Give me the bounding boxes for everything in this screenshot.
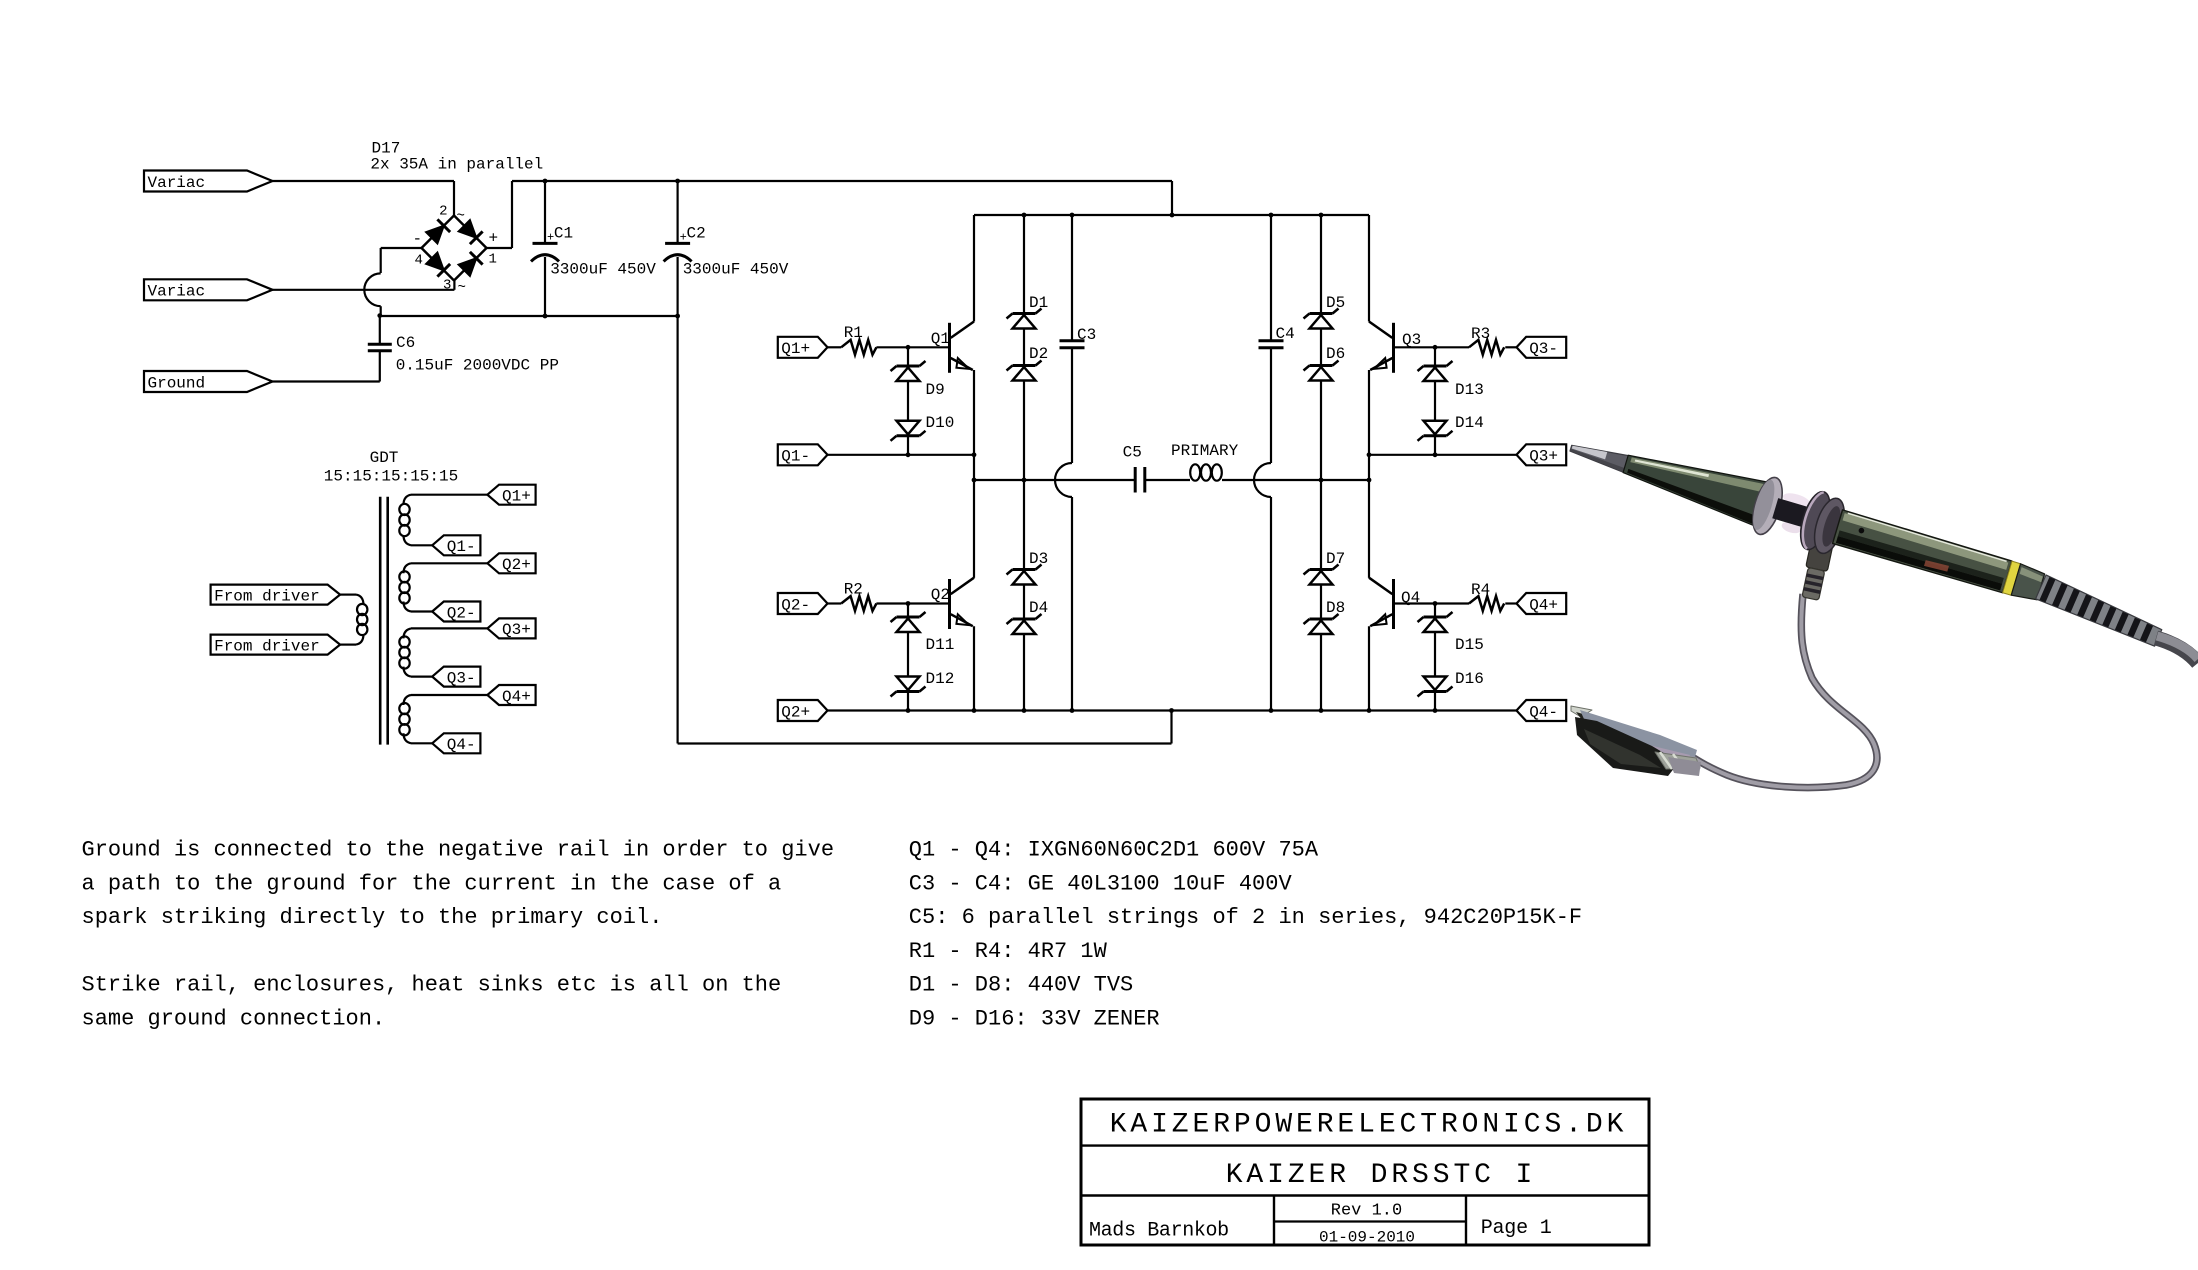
node mid rail junctions [972, 478, 977, 483]
svg-text:D10: D10 [926, 414, 955, 432]
wire positive rail from bridge to H-bridge feed [487, 247, 513, 249]
svg-text:R1 - R4: 4R7 1W: R1 - R4: 4R7 1W [909, 939, 1108, 964]
svg-text:PRIMARY: PRIMARY [1171, 442, 1239, 460]
svg-text:C1: C1 [554, 225, 573, 243]
svg-text:spark striking directly to the: spark striking directly to the primary c… [82, 905, 663, 930]
svg-text:D1 - D8: 440V TVS: D1 - D8: 440V TVS [909, 973, 1133, 998]
capacitor C1 [531, 181, 559, 316]
wire Q2 emitter down [973, 626, 975, 710]
wire Q1- row [828, 454, 975, 456]
svg-text:Q1+: Q1+ [781, 340, 810, 358]
flag Q1+ [487, 485, 535, 506]
transformer GDT core [379, 497, 382, 745]
title block frame [1081, 1099, 1649, 1245]
svg-text:D3: D3 [1029, 550, 1048, 568]
node bottom rail junctions [906, 708, 911, 713]
svg-text:From driver: From driver [214, 637, 320, 655]
diode D3 (TVS) [1007, 480, 1042, 619]
svg-text:Variac: Variac [148, 283, 206, 301]
wire top rail from Variac to bridge [273, 180, 455, 182]
svg-text:3: 3 [443, 278, 451, 294]
probe tip [1568, 439, 1631, 473]
svg-text:C4: C4 [1276, 325, 1295, 343]
svg-text:Variac: Variac [148, 174, 206, 192]
capacitor C4 [1254, 215, 1284, 711]
wire feed down to H-bridge top rail [1171, 181, 1173, 215]
transistor Q4 [1369, 578, 1394, 629]
flag Ground [144, 371, 273, 392]
capacitor C6 [368, 316, 392, 382]
svg-text:Q2-: Q2- [447, 604, 476, 622]
flag Q3- [1517, 337, 1567, 358]
node C1 bottom [543, 314, 548, 319]
diode D16 (zener) [1418, 677, 1453, 711]
svg-text:Ground is connected to the neg: Ground is connected to the negative rail… [82, 838, 835, 863]
flag From driver [211, 635, 341, 656]
svg-text:R1: R1 [844, 324, 863, 342]
node C2 top [675, 179, 680, 184]
svg-text:C5: C5 [1123, 444, 1142, 462]
wire Q1 collector [973, 215, 975, 322]
svg-text:3300uF 450V: 3300uF 450V [550, 261, 656, 279]
diode D7 (TVS) [1304, 480, 1339, 619]
svg-text:Q2+: Q2+ [781, 703, 810, 721]
diode D4 (TVS) [1007, 614, 1042, 711]
bridge rectifier D17 [413, 204, 499, 297]
flag Q2- [778, 593, 828, 614]
svg-text:Q4: Q4 [1401, 589, 1420, 607]
wire mid rail (bridge output) [974, 479, 1135, 481]
svg-text:Q2+: Q2+ [502, 556, 531, 574]
wire Q3+ row [1369, 454, 1517, 456]
GDT secondary winding Q1+/Q1- [399, 495, 487, 546]
GDT secondary winding Q3+/Q3- [399, 628, 487, 676]
diode D6 (TVS) [1304, 361, 1339, 481]
wire gate to Q2 [908, 602, 949, 604]
svg-text:C6: C6 [396, 334, 415, 352]
svg-text:D9: D9 [926, 381, 945, 399]
svg-text:Q1+: Q1+ [502, 488, 531, 506]
svg-text:D14: D14 [1455, 414, 1484, 432]
svg-text:same ground connection.: same ground connection. [82, 1007, 386, 1032]
svg-text:R4: R4 [1471, 581, 1490, 599]
flag Variac [144, 171, 273, 192]
probe ground lead connector [1800, 526, 1836, 601]
svg-text:+: + [489, 230, 499, 248]
node C2 bottom [675, 314, 680, 319]
GDT secondary winding Q2+/Q2- [399, 563, 487, 611]
svg-text:Q3-: Q3- [1529, 340, 1558, 358]
svg-text:3300uF 450V: 3300uF 450V [683, 261, 789, 279]
svg-text:15:15:15:15:15: 15:15:15:15:15 [324, 468, 458, 486]
svg-text:Q3+: Q3+ [502, 621, 531, 639]
probe flange disc [1747, 474, 1788, 538]
svg-text:Q1 - Q4: IXGN60N60C2D1 600V 75: Q1 - Q4: IXGN60N60C2D1 600V 75A [909, 838, 1319, 863]
node Q3+ junctions [1433, 452, 1438, 457]
svg-text:D12: D12 [926, 670, 955, 688]
flag Q1+ [778, 337, 828, 358]
probe rear taper [2011, 564, 2045, 603]
svg-text:Q1-: Q1- [781, 448, 810, 466]
wire bridge pin4 to negative rail (with hop) [381, 247, 422, 249]
diode D10 (zener) [891, 421, 926, 455]
inductor PRIMARY [1190, 464, 1222, 480]
svg-text:Rev 1.0: Rev 1.0 [1331, 1202, 1402, 1221]
wire Q1 emitter down [973, 370, 975, 578]
flag Q2- [432, 602, 480, 623]
diode D1 (TVS) [1007, 215, 1042, 366]
svg-text:D8: D8 [1326, 599, 1345, 617]
flag Q4- [1517, 700, 1567, 721]
svg-text:Q4+: Q4+ [502, 688, 531, 706]
svg-text:01-09-2010: 01-09-2010 [1319, 1229, 1415, 1247]
svg-text:1: 1 [489, 252, 497, 268]
diode D5 (TVS) [1304, 215, 1339, 366]
probe neck [1781, 491, 1811, 509]
wire negative return rail [676, 316, 678, 744]
flag Q4+ [1517, 593, 1567, 614]
wire gate to Q3 [1395, 346, 1435, 348]
svg-text:KAIZER DRSSTC I: KAIZER DRSSTC I [1226, 1160, 1537, 1191]
svg-text:D5: D5 [1326, 294, 1345, 312]
svg-text:C5: 6 parallel strings of 2 in: C5: 6 parallel strings of 2 in series, 9… [909, 905, 1582, 930]
svg-text:C2: C2 [687, 225, 706, 243]
probe alligator clip [1571, 706, 1701, 776]
diode D2 (TVS) [1007, 361, 1042, 481]
resistor R4 [1435, 596, 1517, 611]
svg-text:Q4-: Q4- [447, 736, 476, 754]
diode D15 (zener) [1418, 604, 1453, 677]
svg-text:2: 2 [439, 204, 447, 220]
svg-text:D1: D1 [1029, 294, 1048, 312]
svg-text:Q3+: Q3+ [1529, 448, 1558, 466]
transistor Q2 [950, 578, 975, 629]
svg-text:Q3-: Q3- [447, 669, 476, 687]
resistor R3 [1435, 340, 1517, 355]
svg-text:D16: D16 [1455, 670, 1484, 688]
diode D12 (zener) [891, 677, 926, 711]
capacitor C2 [664, 181, 692, 316]
diode D9 (zener) [891, 347, 926, 421]
probe head cone [1619, 441, 1774, 528]
svg-text:C3: C3 [1077, 326, 1096, 344]
node Q3 gate [1433, 345, 1438, 350]
probe ground lead wire [1689, 594, 1877, 788]
capacitor C5 [1135, 467, 1145, 493]
wire gate to Q4 [1395, 602, 1435, 604]
wire gate to Q1 [908, 346, 949, 348]
probe cable to edge [2156, 638, 2198, 663]
svg-text:Q4+: Q4+ [1529, 596, 1558, 614]
probe barrel [1833, 510, 2013, 594]
photo: oscilloscope probe [1562, 419, 2198, 787]
flag Q3- [432, 667, 480, 688]
wire H-bridge top rail [974, 214, 1369, 216]
capacitor C3 [1055, 215, 1085, 711]
node Q1 gate [906, 345, 911, 350]
svg-text:2x 35A in parallel: 2x 35A in parallel [370, 156, 543, 174]
svg-text:D6: D6 [1326, 345, 1345, 363]
transistor Q3 [1369, 322, 1394, 373]
flag Q3+ [487, 618, 535, 639]
svg-text:a path to the ground for the c: a path to the ground for the current in … [82, 871, 782, 896]
probe compensation collar [1795, 488, 1836, 553]
svg-text:Q3: Q3 [1402, 331, 1421, 349]
svg-text:Q2-: Q2- [781, 596, 810, 614]
flag Variac [144, 279, 273, 300]
node C1 top [543, 179, 548, 184]
svg-text:D7: D7 [1326, 550, 1345, 568]
wire H-bridge bottom rail [828, 709, 1517, 711]
node top rail junctions [1022, 213, 1027, 218]
svg-text:D4: D4 [1029, 599, 1048, 617]
resistor R1 [828, 340, 909, 355]
wire Q4 emitter down [1368, 626, 1370, 710]
svg-text:Page 1: Page 1 [1481, 1217, 1552, 1240]
svg-text:Q1: Q1 [931, 330, 950, 348]
flag Q1- [778, 444, 828, 465]
svg-text:Q2: Q2 [931, 586, 950, 604]
svg-text:D15: D15 [1455, 636, 1484, 654]
diode D8 (TVS) [1304, 614, 1339, 711]
svg-text:GDT: GDT [370, 449, 399, 467]
diode D13 (zener) [1418, 347, 1453, 421]
flag Q3+ [1517, 444, 1567, 465]
svg-text:-: - [413, 230, 423, 248]
svg-text:4: 4 [415, 253, 423, 269]
wire Ground flag to C6 [273, 380, 380, 382]
wire Variac2 to bridge pin3 [273, 289, 455, 291]
svg-text:~: ~ [457, 209, 465, 225]
flag From driver [211, 585, 341, 606]
GDT secondary winding Q4+/Q4- [399, 695, 487, 743]
svg-text:Strike rail, enclosures, heat: Strike rail, enclosures, heat sinks etc … [82, 973, 782, 998]
GDT primary winding [340, 595, 367, 645]
diode D14 (zener) [1418, 421, 1453, 455]
flag Q2+ [778, 700, 828, 721]
wire negative bottom rail [380, 315, 678, 317]
svg-text:D9 - D16: 33V ZENER: D9 - D16: 33V ZENER [909, 1007, 1160, 1032]
svg-text:Q1-: Q1- [447, 538, 476, 556]
svg-text:R3: R3 [1471, 325, 1490, 343]
svg-text:Ground: Ground [148, 374, 206, 392]
probe strain relief ribs [2036, 575, 2164, 650]
svg-text:D11: D11 [926, 636, 955, 654]
svg-text:R2: R2 [844, 581, 863, 599]
svg-text:C3 - C4: GE 40L3100 10uF 400V: C3 - C4: GE 40L3100 10uF 400V [909, 871, 1293, 896]
svg-text:D2: D2 [1029, 345, 1048, 363]
resistor R2 [828, 596, 909, 611]
flag Q4+ [487, 685, 535, 706]
transistor Q1 [950, 322, 975, 373]
diode D11 (zener) [891, 604, 926, 677]
svg-text:From driver: From driver [214, 587, 320, 605]
svg-text:D13: D13 [1455, 381, 1484, 399]
node negative rail / C6 [377, 313, 382, 318]
svg-text:KAIZERPOWERELECTRONICS.DK: KAIZERPOWERELECTRONICS.DK [1110, 1110, 1628, 1141]
wire Q3 collector [1368, 215, 1370, 322]
node Q4 gate [1433, 601, 1438, 606]
svg-text:0.15uF 2000VDC PP: 0.15uF 2000VDC PP [396, 357, 559, 375]
probe yellow ring [2003, 561, 2021, 595]
svg-text:~: ~ [458, 280, 466, 296]
flag Q1- [432, 535, 480, 556]
node Q2 gate [906, 601, 911, 606]
wire Q3 emitter down [1368, 370, 1370, 578]
flag Q2+ [487, 553, 535, 574]
flag Q4- [432, 733, 480, 754]
node Q1- junctions [906, 452, 911, 457]
svg-text:Mads Barnkob: Mads Barnkob [1089, 1220, 1229, 1243]
svg-text:Q4-: Q4- [1529, 703, 1558, 721]
